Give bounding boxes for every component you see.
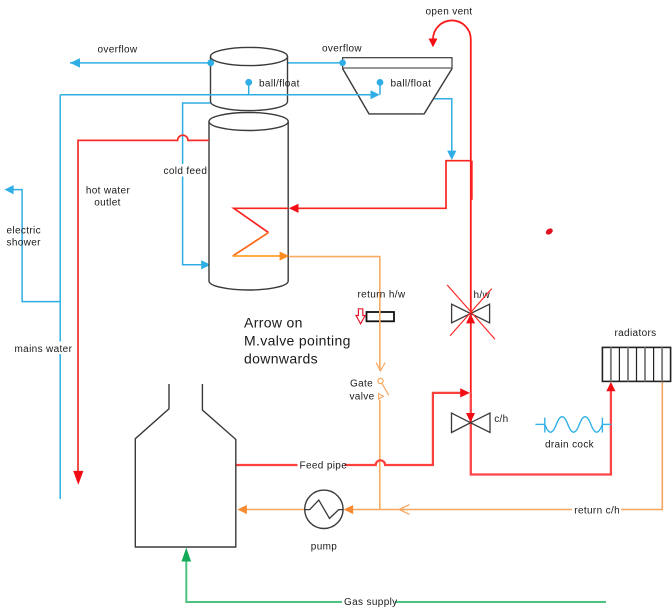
svg-text:hot water: hot water <box>86 186 131 197</box>
label Gas supply <box>342 596 395 608</box>
hot water cylinder <box>209 122 288 291</box>
svg-text:mains water: mains water <box>15 344 73 355</box>
svg-text:shower: shower <box>7 238 42 249</box>
label mains water <box>13 342 71 355</box>
arrow orange into boiler <box>237 505 247 514</box>
gate valve small triangle <box>379 394 384 399</box>
pump <box>305 490 343 528</box>
label return c/h <box>572 503 621 515</box>
arrow coil out orange <box>280 252 290 261</box>
arrow electric shower <box>5 185 14 194</box>
stray red dot <box>545 227 554 236</box>
arrow overflow left <box>70 58 80 67</box>
arrow cold feed into cylinder <box>201 260 211 269</box>
boiler <box>135 384 236 547</box>
wire mains water vertical <box>59 95 61 499</box>
wire return h/w orange <box>289 257 380 371</box>
coil bottom orange <box>233 255 281 257</box>
wire electric shower branch <box>13 190 60 302</box>
svg-text:radiators: radiators <box>614 328 656 339</box>
svg-text:outlet: outlet <box>94 198 121 209</box>
drain cock <box>535 417 611 433</box>
svg-text:ball/float: ball/float <box>259 79 300 90</box>
svg-text:pump: pump <box>311 542 338 553</box>
coil zigzag red part <box>234 208 288 232</box>
gate valve circle <box>378 378 383 383</box>
node ball/float F&E dot <box>377 79 384 86</box>
small cold water tank <box>211 57 288 111</box>
arrow into coil <box>289 204 299 213</box>
svg-text:Gate: Gate <box>350 379 373 390</box>
wire red branch to coil <box>298 161 471 209</box>
valve c/h bowtie <box>452 413 491 432</box>
gate valve open arrow <box>376 363 385 371</box>
wire radiator riser red arrow <box>606 382 615 391</box>
arrow into ball valve F&E <box>371 90 380 99</box>
svg-text:valve: valve <box>349 392 374 403</box>
svg-text:overflow: overflow <box>97 45 137 56</box>
wire mains water horizontal to F&E ball valve <box>60 94 371 96</box>
wire return c/h orange <box>352 381 662 509</box>
svg-text:electric: electric <box>7 226 41 237</box>
red X over h/w valve <box>447 285 495 339</box>
coil zigzag orange-red diagonal <box>233 233 269 256</box>
wire cold feed small tank <box>183 103 211 265</box>
gate valve diagonal <box>382 384 389 396</box>
label cold feed <box>162 164 204 177</box>
svg-text:downwards: downwards <box>244 351 318 367</box>
wire hot water outlet red <box>78 135 209 471</box>
arrow h/w valve up <box>466 314 475 324</box>
svg-text:overflow: overflow <box>322 44 362 55</box>
arrow hot water down <box>73 471 83 485</box>
wire ball/float stub F&E <box>379 84 381 95</box>
arrow F&E cold feed down <box>447 151 456 160</box>
wire red overlap segment on vent pipe <box>471 161 473 200</box>
svg-text:ball/float: ball/float <box>391 79 432 90</box>
node overflow dot F&E tank <box>339 60 346 67</box>
F&E tank trapezoid body <box>343 69 452 114</box>
wire ball/float stub small tank <box>248 84 250 95</box>
arrow gas into boiler <box>182 548 192 562</box>
arrow c/h valve down <box>466 413 475 423</box>
gas supply green <box>186 557 606 602</box>
open vent red pipe <box>433 20 471 392</box>
wire heating circuit down to radiators <box>471 390 611 475</box>
svg-text:M.valve pointing: M.valve pointing <box>244 333 351 349</box>
node overflow dot small tank <box>207 60 214 67</box>
return h/w rect symbol <box>367 312 395 321</box>
svg-text:return h/w: return h/w <box>358 290 406 301</box>
svg-text:c/h: c/h <box>494 414 508 425</box>
label Feed pipe <box>298 459 345 471</box>
arrow open vent down <box>429 39 438 48</box>
node ball/float small tank dot <box>245 79 252 86</box>
wire feed pipe red <box>236 393 461 465</box>
svg-text:drain cock: drain cock <box>545 440 595 451</box>
radiator <box>602 347 670 381</box>
arrow feed into main <box>460 388 470 397</box>
svg-text:Gas supply: Gas supply <box>344 597 398 608</box>
svg-text:open vent: open vent <box>425 7 472 18</box>
valve h/w bowtie <box>452 304 490 323</box>
wire overflow line cyan <box>70 62 343 64</box>
arrow orange into pump <box>344 505 354 514</box>
svg-text:Feed pipe: Feed pipe <box>300 461 348 472</box>
F&E tank rim <box>343 58 452 69</box>
wire pump to boiler orange <box>246 509 305 511</box>
hollow red arrow symbol <box>356 309 365 324</box>
svg-text:cold feed: cold feed <box>164 166 208 177</box>
open arrow on return c/h <box>399 505 409 515</box>
wire F&E tank cold feed down <box>434 99 452 152</box>
svg-text:Arrow on: Arrow on <box>244 315 303 331</box>
svg-text:return c/h: return c/h <box>574 506 620 517</box>
wire return h/w orange lower <box>379 400 381 510</box>
